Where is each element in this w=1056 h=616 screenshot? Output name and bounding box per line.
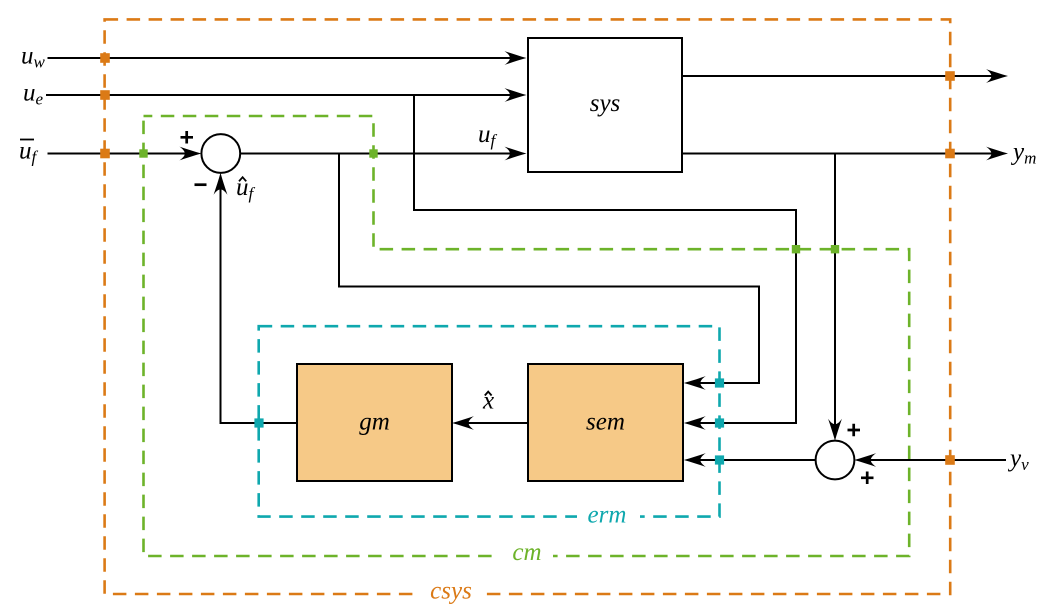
svg-text:cm: cm [512, 539, 541, 566]
svg-text:gm: gm [359, 409, 390, 436]
svg-text:sys: sys [590, 90, 621, 117]
svg-text:csys: csys [430, 578, 472, 605]
svg-text:sem: sem [586, 409, 625, 436]
svg-text:erm: erm [588, 501, 627, 528]
